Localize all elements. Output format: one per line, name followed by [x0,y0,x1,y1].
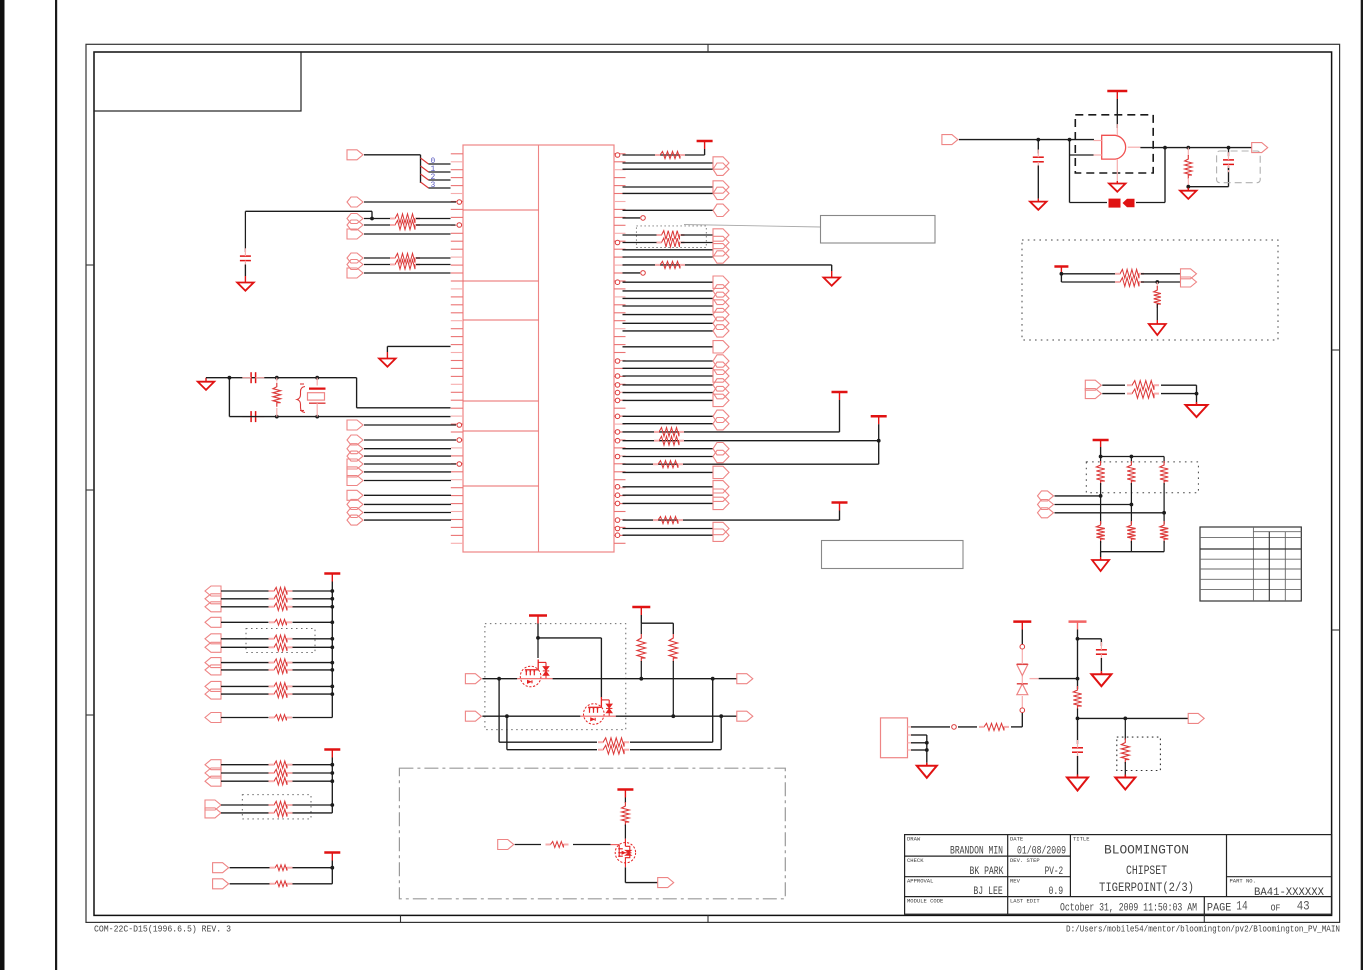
pin circle [615,485,620,490]
ground [205,378,207,382]
connector arrA 606.8 [205,602,221,612]
resistor R-up-2 [1163,457,1165,464]
wire to Q2 drain [538,637,601,639]
junction [536,636,540,640]
wire pullup top [640,615,642,623]
connector right row 400.4 [713,394,729,406]
IC U1 section line y281 [463,280,539,282]
wire right row 306 [623,305,714,307]
wire right row 163 [623,162,714,164]
wire+resistor arrA 717.5 [221,717,269,719]
connector right row 306 [713,300,729,312]
pin circle [615,526,620,531]
junction [1162,511,1166,515]
connector right row 163 [713,157,729,169]
wire+resistor arrC 883.8 [230,883,270,885]
wire row 218.5 [364,218,394,220]
connector right row 210.3 [713,204,729,216]
wire+resistor arrB 812.9 [221,812,269,814]
resistor R-pu2 [669,634,677,662]
wire row 218.5 b [416,218,451,220]
ground [1187,188,1189,191]
junction [315,415,319,419]
resistor R-sig [979,723,1009,730]
connector row 512.5 [347,508,363,518]
svg-text:MODULE CODE: MODULE CODE [907,898,944,905]
border tick left y490 [86,489,94,491]
connector [1085,380,1101,390]
connector right row 416.3 [713,410,729,422]
connector right row 282.2 [713,276,729,288]
wire row 225 b [416,224,456,226]
wire row 385.2 [1102,384,1125,386]
ground [1100,557,1102,560]
svg-text:BK PARK: BK PARK [970,866,1004,878]
connector right row 392.6 [713,386,729,398]
wire bus bit 0 [429,163,451,165]
connector right row 495.2 [713,489,729,501]
junction [925,741,929,745]
connector output [1252,143,1268,153]
ground [831,271,833,278]
junction [330,597,334,601]
dotted box net [1086,462,1198,493]
wire row 480.5 [364,480,451,482]
wire row155 [623,154,705,156]
resistor R-pu1 [640,623,642,634]
resistor R-div [1073,686,1081,710]
connector arrC 867.7 [213,863,229,873]
connector row 234 [347,229,363,239]
wire row 202 [364,201,456,203]
wire row 448.7 [364,448,451,450]
wire row 431.9 [623,431,840,433]
connector row 264.5 [347,260,363,270]
ground [1124,775,1126,778]
transistor Q2 [584,704,605,725]
wire xtal left leg [228,378,230,417]
border tick bottom x1204 [1203,915,1205,922]
connector right row 503.4 [713,497,729,509]
connector [1038,500,1054,510]
wire right row 400.4 [623,399,714,401]
wire right row 456.5 [623,456,714,458]
IC U1 right pin stubs [614,154,626,544]
junction [330,685,334,689]
resistor pack RP-left-2 [390,253,420,262]
wire fb A [498,679,500,743]
wire row 225 [364,224,394,226]
resistor pack dual [1127,381,1159,390]
connector [713,244,729,256]
svg-text:01/08/2009: 01/08/2009 [1017,846,1066,858]
junction [1186,146,1190,150]
ground [1037,199,1039,202]
wire row 456.1 [364,455,451,457]
capacitor C-vcc [1096,649,1107,651]
connector arrB 812.9 [205,808,221,818]
note box 1 [821,216,936,244]
connector right row 290.9 [713,285,729,297]
vcc T gate [1107,90,1127,93]
wire row 242.5 [623,242,661,244]
wire right row 361 [623,360,714,362]
bus A [331,582,333,718]
dotted box shifter [485,624,626,730]
pin circle [615,533,620,538]
crystal Y1 [316,378,318,386]
ground [1077,775,1079,778]
svg-text:OF: OF [1271,903,1281,914]
wire row1 out [553,678,737,680]
wire row1 [482,678,517,680]
connector arrA 622.3 [205,617,221,627]
resistor R-opt [1124,718,1126,740]
wire fb B [506,716,508,750]
title box top-left [94,52,301,111]
wire row 235 b [681,234,713,236]
pin circle [952,725,957,730]
ground [244,276,246,283]
junction [1036,138,1040,142]
connector [1085,389,1101,399]
junction [330,803,334,807]
IC U1 section line y486 [463,485,539,487]
X2 pins [908,726,912,728]
wire row 235 [623,234,661,236]
wire row 393.6 [1102,393,1125,395]
junction [1099,494,1103,498]
svg-text:TITLE: TITLE [1073,836,1090,843]
wire row 264.5 [364,264,394,266]
connector right row 346.8 [713,341,729,353]
vcc T array B [324,748,340,751]
resistor R-pullup gate [1187,148,1189,156]
connector row 471.9 [347,467,363,477]
junction [330,763,334,767]
svg-text:14: 14 [1236,899,1248,914]
resistor R-fbA [598,738,629,747]
junction [275,415,279,419]
wire+resistor arrA 638.8 [221,638,269,640]
component X2 box [881,718,908,758]
connector row 258 [347,253,363,263]
wire Q3 out [624,867,626,882]
junction [1130,503,1134,507]
svg-text:BLOOMINGTON: BLOOMINGTON [1104,843,1189,858]
svg-text:APPROVAL: APPROVAL [907,878,933,885]
vcc T x839 [832,391,848,394]
wire row 258 b [416,257,451,259]
wire+resistor arrA 622.3 [221,621,269,623]
wire mid diode [1021,676,1023,684]
ferrite bead F1 [1109,199,1121,208]
bus ripper bit 2 [421,174,429,180]
wire cap branch [1078,638,1102,640]
connector right row 472.4 [713,466,729,478]
dashed box U-gate [1075,115,1153,173]
junction [330,589,334,593]
connector arrA 591 [205,586,221,596]
zener D-low [1021,696,1023,708]
svg-text:DATE: DATE [1010,836,1024,843]
connector [1038,491,1054,501]
connector [1181,277,1197,287]
vcc T row155 [697,140,713,143]
pin circle [615,280,620,285]
svg-text:PART NO.: PART NO. [1230,878,1256,885]
connector in Q3 [498,840,514,850]
capacitor C-in [1037,140,1039,154]
wire row 425 [364,424,456,426]
ground gate [1116,181,1118,184]
wire right row 376 [623,375,714,377]
vcc T array C [324,851,340,854]
wire row 440 [364,439,456,441]
junction [330,771,334,775]
connector row 273 [347,268,363,278]
connector right row 423.7 [713,418,729,430]
border tick bottom x708 [707,915,709,922]
connector row 504.4 [347,499,363,509]
pin circle [615,430,620,435]
dotted box R [1117,737,1161,770]
connector row 456.1 [347,451,363,461]
wire row 346 to ground [387,345,450,347]
bus C [331,861,333,884]
wire X2 sig [911,726,950,728]
dotted box arrB [242,795,311,819]
connector right row 486.8 [713,481,729,493]
left vertical rule [55,0,57,970]
wire right row 472.4 [623,471,714,473]
vcc T x878 [871,415,887,418]
connector arrB 764.7 [205,760,221,770]
ground [386,352,388,359]
wire vcc down [1077,630,1079,690]
table [1200,527,1301,601]
wire diode tap [1030,678,1039,680]
pin circle [615,501,620,506]
connector out Q3 [658,878,674,888]
wire row 273.8 b [1141,273,1181,275]
resistor R row431 [654,428,684,437]
junction [330,779,334,783]
connector right row 298.4 [713,292,729,304]
capacitor C-xtal-2 [250,411,252,422]
connector [1181,269,1197,279]
connector [1038,508,1054,518]
wire right row 169.2 [623,168,714,170]
connector right row 187 [713,181,729,193]
wire right row 535.2 [623,534,714,536]
wire X2 gnd [911,734,927,736]
IC U1 internal divider [538,145,540,552]
vcc T reg [1069,620,1087,623]
connector row 480.5 [347,476,363,486]
connector arrB 781.2 [205,776,221,786]
connector right row 376 [713,370,729,382]
connector row 448.7 [347,444,363,454]
wire+resistor arrA 694.1 [221,693,269,695]
resistor R row264 [655,261,685,268]
connector row 495.3 [347,490,363,500]
IC U1 left pin stubs [451,154,463,544]
svg-text:October 31, 2009 11:50:03 AM: October 31, 2009 11:50:03 AM [1060,903,1197,915]
wire+resistor arrB 781.2 [221,780,269,782]
pin circle [615,383,620,388]
wire bus feed [364,154,421,156]
resistor R-dn-1 [1130,504,1132,524]
ground [926,763,928,766]
vcc T Q1 [529,614,547,617]
gate pin leads [1093,140,1101,142]
border tick left y715 [86,714,94,716]
pin circle [615,438,620,443]
connector in2 [465,711,481,721]
junction [1060,272,1064,276]
resistor R-gate Q3 [546,842,569,848]
junction [275,376,279,380]
connector row 218.5 [347,214,363,224]
note box 2 [822,541,964,569]
right vertical rule [1361,0,1363,970]
svg-text:CHECK: CHECK [907,857,924,864]
wire gate input2 [1070,154,1095,156]
wire row 495.3 [364,494,451,496]
connector row 202 [347,197,363,207]
wire vcc drop [537,624,539,638]
junction [1163,146,1167,150]
connector right row 361 [713,355,729,367]
resistor R row464 [653,461,683,468]
svg-text:BA41-XXXXXX: BA41-XXXXXX [1254,887,1324,899]
junction [1076,637,1080,641]
connector arrB 805 [205,800,221,810]
ferrite bead F2 [1123,199,1135,207]
wire right row 368.3 [623,367,714,369]
resistor pack RP-left-1 [390,214,420,223]
wire gate input [959,139,1094,141]
connector arrA 717.5 [205,713,221,723]
pin circle [1020,644,1025,649]
junction [330,605,334,609]
junction [228,376,232,380]
vcc T pullups [632,606,650,609]
wire gate output [1140,147,1251,149]
connector arrC 883.8 [213,879,229,889]
connector right row 323.3 [713,317,729,329]
pin circle [615,240,620,245]
wire row 273.8 [1061,273,1118,275]
op-amp U-gate AND [1102,135,1126,159]
vcc T diode [1013,620,1031,623]
wire bus bit 1 [429,171,451,173]
connector row 425 [347,420,363,430]
junction [505,714,509,718]
wire right row 330.9 [623,330,714,332]
junction [330,620,334,624]
ground [1196,402,1198,405]
wire sig2 [958,726,977,728]
svg-text:PV-2: PV-2 [1045,866,1064,878]
connector right row 368.3 [713,362,729,374]
dashdot box [399,768,785,899]
wire net row3 [1055,512,1165,514]
svg-text:DEV. STEP: DEV. STEP [1010,857,1040,864]
left black margin bar [0,0,5,970]
wire row2 [482,715,580,717]
wire right row 503.4 [623,502,714,504]
resistor R-dn-2 [1163,513,1165,524]
wire row 440.7 [623,440,879,442]
connector arrA 638.8 [205,634,221,644]
wire right row 392.6 [623,392,714,394]
svg-text:LAST EDIT: LAST EDIT [1010,898,1040,905]
connector row 440 [347,435,363,445]
resistor R row155 [655,151,685,158]
junction [330,668,334,672]
wire stub row 217.9 [623,217,641,219]
bus ripper bit 3 [421,182,429,188]
wire right row 486.8 [623,486,714,488]
connector out1 [737,674,753,684]
wire row 282 [1061,281,1118,283]
wire row 471.9 [364,471,451,473]
wire row2 out [616,715,737,717]
pin circle [615,374,620,379]
wire sig3 [1011,726,1022,728]
junction [330,645,334,649]
wire gate input2 drop [1069,140,1071,203]
svg-text:CHIPSET: CHIPSET [1126,863,1167,878]
connector out2 [737,711,753,721]
wire gate Q3 b [573,844,611,846]
wire row 464 [364,463,456,465]
connector input [942,135,958,145]
wire right row 290.9 [623,290,714,292]
bus B [331,758,333,813]
wire right row 416.3 [623,415,714,417]
svg-text:TIGERPOINT(2/3): TIGERPOINT(2/3) [1099,880,1194,895]
leader line to note box [684,225,821,228]
wire+resistor arrA 591 [221,590,269,592]
wire stub row 272.9 [623,272,641,274]
junction [671,714,675,718]
wire right row 187 [623,186,714,188]
connector in1 [465,674,481,684]
connector right row 169.2 [713,163,729,175]
connector right row 528.5 [713,522,729,534]
svg-text:COM-22C-D15(1996.6.5) REV. 3: COM-22C-D15(1996.6.5) REV. 3 [94,924,231,935]
wire right row 346.8 [623,346,714,348]
wire right row 323.3 [623,322,714,324]
capacitor C-out [1228,148,1230,157]
wire right row 193.4 [623,192,714,194]
wire row 520.1 [364,519,451,521]
wire+resistor arrA 669.9 [221,669,269,671]
wire row 512.5 [364,512,451,514]
junction [639,677,643,681]
IC U1 section line y431 [463,430,539,432]
wire row 264.9 [623,264,832,266]
wire cap2 [1077,718,1079,744]
resistor R-dn-0 [1100,496,1102,524]
bus ripper bit 1 [421,166,429,172]
resistor R row520 [653,517,683,524]
svg-text:BRANDON MIN: BRANDON MIN [950,846,1003,858]
resistor R-xtal [276,378,278,382]
